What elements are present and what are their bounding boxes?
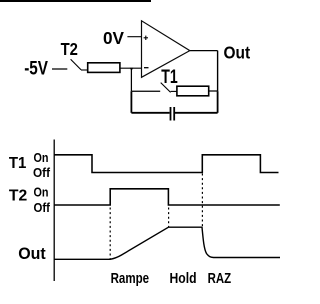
svg-text:On: On (34, 185, 49, 200)
svg-text:Hold: Hold (170, 270, 197, 287)
svg-text:Off: Off (34, 200, 51, 215)
svg-text:0V: 0V (103, 28, 124, 48)
svg-text:T2: T2 (61, 39, 78, 59)
svg-text:RAZ: RAZ (208, 270, 232, 287)
svg-text:T1: T1 (9, 155, 27, 172)
svg-text:Off: Off (33, 165, 51, 180)
svg-text:On: On (34, 150, 49, 165)
svg-text:T1: T1 (161, 67, 178, 88)
svg-text:-5V: -5V (24, 58, 48, 80)
svg-text:Rampe: Rampe (111, 270, 150, 287)
svg-text:Out: Out (18, 244, 46, 263)
svg-text:Out: Out (224, 43, 251, 63)
svg-text:T2: T2 (9, 188, 28, 205)
